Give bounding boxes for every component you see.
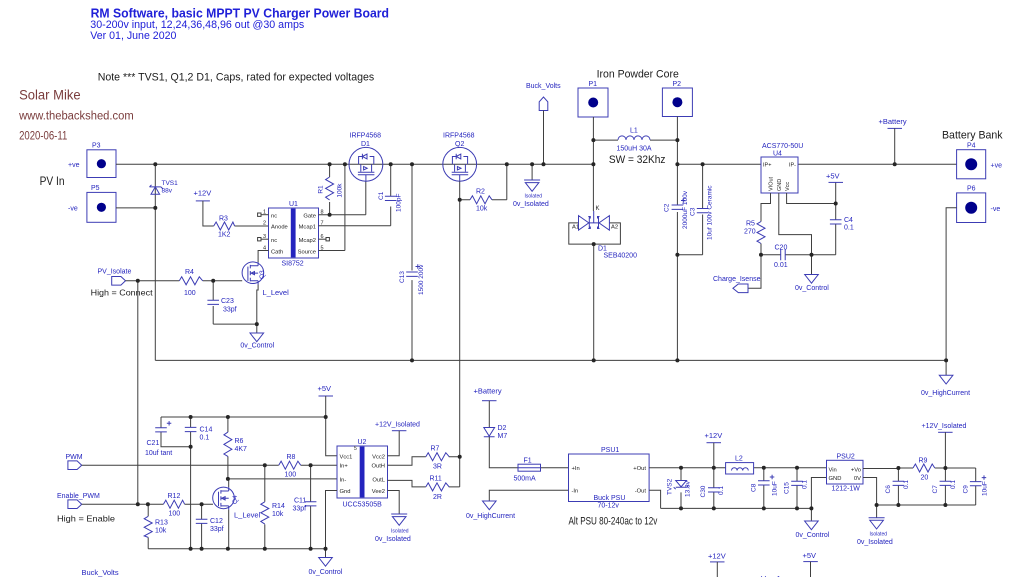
inductor L2 xyxy=(726,456,754,475)
svg-text:Isolated: Isolated xyxy=(525,194,543,200)
svg-text:F1: F1 xyxy=(524,458,532,465)
ground 0v_HighCurrent (battery return) xyxy=(921,360,970,397)
diode D2 M7 xyxy=(484,401,508,440)
wire: TVS1 vertical and 0v rail down xyxy=(154,164,156,360)
svg-text:C7: C7 xyxy=(932,485,939,494)
svg-text:C13: C13 xyxy=(399,271,406,283)
wire: P6 to 0v_HighCurrent rail xyxy=(946,208,957,361)
svg-text:PSU2: PSU2 xyxy=(837,454,855,461)
connector P4 xyxy=(957,143,1002,179)
svg-text:1212-1W: 1212-1W xyxy=(832,486,861,493)
svg-text:C21: C21 xyxy=(147,440,160,447)
svg-text:C15: C15 xyxy=(784,482,791,494)
svg-text:2R: 2R xyxy=(433,494,442,501)
svg-text:10k: 10k xyxy=(272,511,284,518)
svg-text:PWM: PWM xyxy=(66,454,83,461)
pin 6 nc stub xyxy=(319,238,330,241)
svg-text:0.1: 0.1 xyxy=(950,480,957,489)
svg-text:0v_HighCurrent: 0v_HighCurrent xyxy=(921,390,970,397)
zener TVS2 xyxy=(667,468,692,509)
svg-text:0.1: 0.1 xyxy=(844,225,854,232)
svg-text:R8: R8 xyxy=(287,454,296,461)
capacitor C12 xyxy=(196,504,224,549)
svg-text:R9: R9 xyxy=(919,458,928,465)
capacitor C4 xyxy=(830,217,854,232)
svg-text:R1: R1 xyxy=(318,185,325,194)
capacitor C20 xyxy=(761,245,812,270)
resistor R2 xyxy=(470,189,492,213)
connector P1 xyxy=(578,81,608,117)
svg-text:0v_Isolated: 0v_Isolated xyxy=(857,539,893,546)
power +12V_Isolated (U2) xyxy=(375,422,420,431)
resistor R6 xyxy=(224,417,247,479)
wire: U2 Gnd to bottom rail xyxy=(326,491,338,549)
svg-text:Alt PSU 80-240ac to 12v: Alt PSU 80-240ac to 12v xyxy=(569,515,658,527)
ground 0v_Isolated (switch node) xyxy=(513,164,549,208)
connector P6 xyxy=(957,186,1001,223)
svg-text:Anode: Anode xyxy=(271,225,288,231)
connector Enable_PWM xyxy=(57,493,100,508)
diode D1 SEB40200 dual schottky xyxy=(569,206,637,360)
svg-text:10uF: 10uF xyxy=(982,481,989,496)
svg-text:D1: D1 xyxy=(361,141,370,148)
svg-text:Charge_Isense: Charge_Isense xyxy=(713,276,761,283)
svg-text:0v_Isolated: 0v_Isolated xyxy=(375,536,411,543)
wire: PSU1 -In to ground xyxy=(489,490,568,501)
svg-text:10uf 100v Ceramic: 10uf 100v Ceramic xyxy=(707,185,714,240)
svg-text:+Out: +Out xyxy=(633,466,646,472)
wire: PSU2 +Vo to R9 xyxy=(863,467,976,470)
svg-text:270: 270 xyxy=(744,229,756,236)
svg-text:10uf tant: 10uf tant xyxy=(145,450,172,457)
svg-text:C3: C3 xyxy=(690,207,697,216)
wire: +12V_Isolated to U2 Vcc2 xyxy=(388,431,400,456)
wire: Q2 gate down to R7/R11 node xyxy=(459,181,461,487)
svg-text:L2: L2 xyxy=(735,456,743,463)
wire: U1 mcap1 to C1 xyxy=(319,207,391,226)
wire: R5 to C20 node and Charge_Isense xyxy=(748,244,761,289)
wire: isolated 0v rail xyxy=(863,478,976,506)
wire: bottom control rail xyxy=(148,548,325,550)
wire: U2 OutL to R11 xyxy=(388,480,460,487)
svg-text:33pf: 33pf xyxy=(293,506,307,513)
svg-text:Vin: Vin xyxy=(829,468,837,474)
svg-text:A1: A1 xyxy=(572,225,579,231)
capacitor C15 xyxy=(784,468,809,509)
svg-text:+12V: +12V xyxy=(705,431,723,440)
power +5V (U4) xyxy=(826,172,843,183)
wire: U4 GND to 0v node xyxy=(779,193,812,255)
svg-text:SW = 32Khz: SW = 32Khz xyxy=(609,154,666,166)
svg-text:Vcc1: Vcc1 xyxy=(340,454,353,460)
psu module PSU2 1212-1W xyxy=(827,454,864,493)
wire: +Battery stem xyxy=(894,128,896,164)
svg-text:33pf: 33pf xyxy=(223,307,237,314)
wire: PSU1 -Out to 0v rail xyxy=(649,490,811,508)
svg-text:R3: R3 xyxy=(219,216,228,223)
capacitor C21 electrolytic xyxy=(145,421,172,457)
svg-text:nc: nc xyxy=(271,214,277,220)
psu module PSU1 xyxy=(569,447,650,510)
svg-text:0v_Control: 0v_Control xyxy=(795,285,829,292)
svg-text:+12V_Isolated: +12V_Isolated xyxy=(922,423,967,430)
svg-text:High = Connect: High = Connect xyxy=(91,287,154,297)
svg-text:UCC53505B: UCC53505B xyxy=(343,502,383,509)
svg-text:2020-06-11: 2020-06-11 xyxy=(19,130,67,142)
svg-text:150uH 30A: 150uH 30A xyxy=(617,146,652,153)
transistor Q3 (level shift FET) xyxy=(242,262,289,297)
wire: R2 loop to bus xyxy=(460,164,507,200)
svg-text:ACS770-50U: ACS770-50U xyxy=(762,143,803,150)
svg-text:-Out: -Out xyxy=(635,489,647,495)
svg-text:3R: 3R xyxy=(433,464,442,471)
svg-text:P2: P2 xyxy=(673,81,682,88)
svg-text:Buck_Volts: Buck_Volts xyxy=(526,83,561,90)
svg-text:Buck PSU: Buck PSU xyxy=(594,495,626,502)
wire: Q4 source to bottom rail xyxy=(228,510,230,549)
svg-text:10uF: 10uF xyxy=(772,481,779,496)
svg-text:100: 100 xyxy=(184,290,196,297)
svg-text:+In: +In xyxy=(572,466,580,472)
wire: U2 Vee2 down xyxy=(388,491,400,515)
capacitor C3 ceramic xyxy=(677,164,713,255)
svg-text:PV In: PV In xyxy=(40,174,65,188)
resistor R5 xyxy=(744,221,765,244)
svg-text:Vee2: Vee2 xyxy=(372,489,385,495)
wire: Q3 source to 0v_Control xyxy=(257,285,258,325)
svg-text:0.01: 0.01 xyxy=(774,262,788,269)
svg-text:Solar Mike: Solar Mike xyxy=(19,86,81,102)
svg-text:IRFP4568: IRFP4568 xyxy=(350,133,382,140)
svg-text:-In: -In xyxy=(572,489,579,495)
transistor Q2 IRFP4568 xyxy=(443,133,477,182)
svg-text:M7: M7 xyxy=(498,433,508,440)
capacitor C9 electrolytic xyxy=(963,468,989,505)
svg-text:TVS1: TVS1 xyxy=(162,180,179,187)
gate driver U2 UCC53505B xyxy=(337,439,388,509)
svg-text:GND: GND xyxy=(777,179,783,191)
svg-text:0.1: 0.1 xyxy=(200,435,210,442)
ground 0v_Control (driver) xyxy=(309,549,343,576)
svg-text:SI8752: SI8752 xyxy=(282,261,304,268)
svg-text:Isolated: Isolated xyxy=(391,529,409,535)
wire: +12V stem xyxy=(713,443,715,468)
svg-text:U4: U4 xyxy=(773,151,782,158)
svg-text:2000uF 100v: 2000uF 100v xyxy=(682,190,689,229)
svg-text:+ve: +ve xyxy=(68,162,80,169)
svg-text:L_Level: L_Level xyxy=(234,511,261,520)
wire: PSU2 GND to 0v rail xyxy=(811,478,826,509)
svg-text:R4: R4 xyxy=(185,269,194,276)
svg-text:-ve: -ve xyxy=(68,206,78,213)
TVS1 xyxy=(150,180,179,195)
svg-text:R5: R5 xyxy=(746,221,755,228)
svg-text:+5V: +5V xyxy=(826,172,840,181)
svg-text:+12V_Isolated: +12V_Isolated xyxy=(375,422,420,429)
svg-text:R2: R2 xyxy=(476,189,485,196)
capacitor C11 xyxy=(293,465,317,549)
svg-text:IP-: IP- xyxy=(789,163,796,169)
wire: PV_Isolate drop to Enable_PWM line xyxy=(137,281,139,504)
wire: U4 Vcc to +5V and C4 xyxy=(787,182,836,254)
svg-text:GND: GND xyxy=(829,476,842,482)
resistor R11 xyxy=(426,476,449,502)
svg-text:In-: In- xyxy=(340,477,347,483)
capacitor C23 xyxy=(207,281,256,324)
svg-text:0V: 0V xyxy=(854,476,861,482)
wire: Buck_Volts stem xyxy=(543,111,545,165)
svg-text:VIOut: VIOut xyxy=(769,176,775,191)
svg-text:5: 5 xyxy=(354,446,357,452)
svg-text:-ve: -ve xyxy=(991,206,1001,213)
transistor D1 IRFP4568 xyxy=(349,133,383,182)
resistor R14 xyxy=(261,465,285,549)
capacitor C7 xyxy=(932,468,957,505)
wire: U1 source pin to bus xyxy=(319,164,345,250)
svg-text:D1: D1 xyxy=(598,246,607,253)
svg-text:U1: U1 xyxy=(289,201,298,208)
svg-text:P5: P5 xyxy=(91,185,100,192)
svg-text:P4: P4 xyxy=(967,143,976,150)
wire: U4 VIOut to R5 xyxy=(761,193,771,222)
connector PWM xyxy=(66,454,83,469)
connector P5 xyxy=(68,185,116,222)
wire: P5 to TVS node xyxy=(116,207,155,209)
svg-text:R11: R11 xyxy=(430,476,442,483)
ground 0v_Isolated (PSU2) xyxy=(857,505,893,546)
svg-text:www.thebackshed.com: www.thebackshed.com xyxy=(18,110,134,122)
connector Buck_Volts xyxy=(526,83,561,111)
wire: +12V_Isolated stem xyxy=(944,432,946,468)
svg-text:In+: In+ xyxy=(340,464,349,470)
svg-text:PSU1: PSU1 xyxy=(601,447,619,454)
svg-text:10k: 10k xyxy=(155,528,167,535)
svg-text:C9: C9 xyxy=(963,485,970,494)
svg-text:Q4: Q4 xyxy=(232,495,239,504)
power +Battery xyxy=(879,117,907,128)
svg-text:R13: R13 xyxy=(155,520,168,527)
svg-text:100: 100 xyxy=(169,511,181,518)
svg-text:Ver 01, June 2020: Ver 01, June 2020 xyxy=(90,30,176,42)
svg-text:+Vo: +Vo xyxy=(851,468,861,474)
svg-text:+Battery: +Battery xyxy=(879,117,907,126)
svg-text:Cath: Cath xyxy=(271,249,283,255)
svg-text:0.1: 0.1 xyxy=(903,480,910,489)
svg-text:SEB40200: SEB40200 xyxy=(604,253,638,260)
svg-text:10k: 10k xyxy=(476,206,488,213)
connector Charge_Isense xyxy=(713,276,761,293)
svg-text:Gnd: Gnd xyxy=(340,489,351,495)
wire: +5V rail to C21/C14/R6/U2 Vcc1 xyxy=(161,396,337,549)
svg-text:13.8v: 13.8v xyxy=(685,480,692,497)
wire: U1 gate pin to D1 gate xyxy=(319,181,366,214)
wire: Q4 drain to In- line xyxy=(228,479,230,487)
svg-text:1K2: 1K2 xyxy=(218,232,231,239)
svg-text:C20: C20 xyxy=(775,245,788,252)
svg-text:+12V: +12V xyxy=(194,189,212,198)
svg-text:0v_Control: 0v_Control xyxy=(309,569,343,576)
svg-text:Q2: Q2 xyxy=(455,141,464,148)
fuse F1 xyxy=(514,458,541,483)
svg-text:High = Enable: High = Enable xyxy=(57,514,115,524)
power +12V (U1 drive) xyxy=(194,189,212,201)
svg-text:R7: R7 xyxy=(431,446,440,453)
transistor Q4 (PWM invert FET) xyxy=(213,487,261,519)
svg-text:nc: nc xyxy=(271,238,277,244)
resistor R9 xyxy=(913,458,935,482)
svg-text:+5V: +5V xyxy=(803,551,817,560)
power +12V_Isolated (PSU2 out) xyxy=(922,423,967,432)
current sensor U4 ACS770-50U xyxy=(761,143,803,193)
capacitor C30 xyxy=(700,468,725,509)
svg-text:0v_HighCurrent: 0v_HighCurrent xyxy=(466,513,515,520)
svg-text:+Battery: +Battery xyxy=(474,387,502,396)
svg-text:Source: Source xyxy=(298,249,316,255)
svg-text:+5V: +5V xyxy=(318,384,332,393)
svg-text:OutL: OutL xyxy=(372,477,385,483)
svg-text:R14: R14 xyxy=(272,503,285,510)
svg-text:A2: A2 xyxy=(611,225,618,231)
resistor R3 xyxy=(214,216,235,239)
resistor R13 xyxy=(144,504,168,549)
svg-text:4K7: 4K7 xyxy=(235,446,248,453)
wire: U2 OutH to R7 xyxy=(388,457,460,466)
wire: PWM line to R8 and U2 In+ xyxy=(82,464,337,466)
svg-text:C6: C6 xyxy=(885,485,892,494)
svg-text:U2: U2 xyxy=(358,439,367,446)
wire: U1 cath to Q3 drain xyxy=(258,251,268,263)
svg-text:33pf: 33pf xyxy=(210,526,224,533)
svg-text:OutH: OutH xyxy=(371,464,385,470)
power +12V (PSU out) xyxy=(705,431,723,443)
svg-text:PV_Isolate: PV_Isolate xyxy=(98,269,132,276)
svg-text:100pF: 100pF xyxy=(396,194,403,212)
svg-text:D2: D2 xyxy=(498,425,507,432)
svg-text:Battery Bank: Battery Bank xyxy=(942,129,1003,141)
inductor L1 xyxy=(617,128,652,153)
wire: L1 horizontal leads xyxy=(593,139,677,141)
svg-text:K: K xyxy=(596,206,600,212)
pin 3 nc stub xyxy=(258,238,269,241)
wire: +ve bus from P3 to P1 node xyxy=(116,163,594,165)
wire: P1 down through L1 tap to bus and diode K xyxy=(592,117,594,211)
capacitor C1 xyxy=(378,164,403,212)
wire: +12V to R3 to U1 anode xyxy=(203,201,269,226)
power +Battery (PSU feed) xyxy=(474,387,502,401)
ground 0v_Control (PSU2) xyxy=(796,508,830,539)
svg-text:0v_Control: 0v_Control xyxy=(796,532,830,539)
svg-text:Note *** TVS1, Q1,2 D1, Caps,: Note *** TVS1, Q1,2 D1, Caps, rated for … xyxy=(98,72,375,84)
wire: P2 down to C2 top xyxy=(676,117,678,205)
svg-text:Mcap2: Mcap2 xyxy=(299,238,316,244)
ground 0v_HighCurrent (PSU) xyxy=(466,501,515,520)
svg-text:88v: 88v xyxy=(162,188,173,195)
svg-text:IP+: IP+ xyxy=(763,163,771,169)
wire: 0v_HighCurrent rail xyxy=(155,359,946,361)
capacitor C13 electrolytic xyxy=(399,164,425,360)
svg-text:0.1: 0.1 xyxy=(802,480,809,489)
svg-text:C12: C12 xyxy=(210,518,223,525)
power +12V (bottom vreg) xyxy=(708,552,726,577)
power +5V (driver) xyxy=(318,384,334,396)
svg-text:C8: C8 xyxy=(751,483,758,492)
svg-text:1500 200v: 1500 200v xyxy=(418,264,425,295)
ground 0v_Isolated (U2) xyxy=(375,514,411,543)
svg-text:Buck_Volts: Buck_Volts xyxy=(82,568,119,577)
svg-text:C2: C2 xyxy=(664,203,671,212)
svg-text:Mcap1: Mcap1 xyxy=(299,225,316,231)
svg-text:+ve: +ve xyxy=(991,163,1003,170)
svg-text:2: 2 xyxy=(263,221,266,227)
capacitor C14 xyxy=(185,427,213,442)
svg-text:0v_Isolated: 0v_Isolated xyxy=(513,201,549,208)
ground 0v_Control (Q3) xyxy=(240,324,274,349)
pin 1 nc stub xyxy=(258,213,269,216)
svg-text:R12: R12 xyxy=(168,493,181,500)
connector PV_Isolate xyxy=(98,269,132,286)
svg-text:100: 100 xyxy=(285,472,297,479)
svg-text:P6: P6 xyxy=(967,186,976,193)
ground 0v_Control (U4) xyxy=(795,255,829,292)
svg-text:P3: P3 xyxy=(92,143,101,150)
svg-text:P1: P1 xyxy=(589,81,598,88)
svg-text:C30: C30 xyxy=(700,485,707,497)
capacitor C8 electrolytic xyxy=(751,468,779,509)
svg-text:TVS2: TVS2 xyxy=(667,478,674,495)
svg-text:70-12v: 70-12v xyxy=(598,503,620,510)
svg-text:Isolated: Isolated xyxy=(870,532,888,538)
svg-text:C4: C4 xyxy=(844,217,853,224)
svg-text:Enable_PWM: Enable_PWM xyxy=(57,493,100,500)
svg-text:100k: 100k xyxy=(337,183,344,198)
svg-text:Iron Powder Core: Iron Powder Core xyxy=(597,68,679,80)
wire: PSU1 +Out to PSU2 Vin xyxy=(649,467,826,469)
svg-text:0v_Control: 0v_Control xyxy=(240,343,274,350)
svg-text:L1: L1 xyxy=(630,128,638,135)
svg-text:C1: C1 xyxy=(378,191,385,200)
wire: output bus P2 node to U4 xyxy=(677,163,761,165)
svg-text:20: 20 xyxy=(921,475,929,482)
connector P3 xyxy=(68,143,116,178)
wire: PV_Isolate to R4 to Q3 gate xyxy=(126,280,243,282)
resistor R4 xyxy=(179,269,202,297)
svg-text:C14: C14 xyxy=(200,427,213,434)
connector P2 xyxy=(662,81,692,117)
capacitor C6 xyxy=(885,468,910,505)
resistor R12 xyxy=(163,493,184,518)
wire: In- node line xyxy=(228,478,337,480)
svg-text:L_Level: L_Level xyxy=(263,288,290,297)
resistor R8 xyxy=(279,454,301,479)
svg-text:C11: C11 xyxy=(294,498,306,505)
resistor R7 xyxy=(426,446,449,471)
svg-text:0.1: 0.1 xyxy=(718,486,725,495)
power +5V (bottom vreg) xyxy=(803,551,818,577)
svg-text:IRFP4568: IRFP4568 xyxy=(443,133,475,140)
svg-text:Q3: Q3 xyxy=(259,270,266,279)
resistor R1 xyxy=(318,164,344,214)
wire: Enable line to R12 to Q4 gate xyxy=(82,503,213,505)
svg-text:+12V: +12V xyxy=(708,552,726,561)
svg-text:Vcc2: Vcc2 xyxy=(372,454,385,460)
svg-text:500mA: 500mA xyxy=(514,476,537,483)
op-isolator U1 SI8752 xyxy=(263,201,324,268)
wire: D2 to F1 to PSU1 xyxy=(489,437,568,468)
svg-text:R6: R6 xyxy=(235,438,244,445)
svg-text:Gate: Gate xyxy=(303,214,316,220)
capacitor C2 electrolytic xyxy=(664,190,690,360)
svg-text:Vcc: Vcc xyxy=(785,182,791,191)
